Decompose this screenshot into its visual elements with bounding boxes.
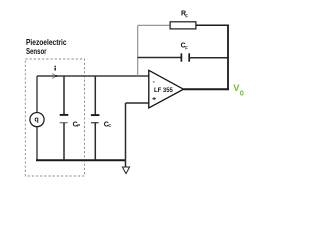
- capacitor CC top lead: [94, 76, 96, 115]
- resistor RF body: [170, 22, 196, 29]
- wire: output: [184, 88, 229, 90]
- capacitor CP top lead: [63, 76, 65, 115]
- wire: feedback left vertical: [137, 25, 139, 76]
- capacitor CP bottom lead: [63, 123, 65, 161]
- capacitor CF left wire: [138, 57, 182, 59]
- capacitor CP bottom plate: [60, 122, 68, 124]
- dashed sensor boundary box: [25, 59, 84, 176]
- wire: bottom rail: [36, 159, 126, 161]
- capacitor CF right wire: [189, 57, 229, 59]
- current arrow on top wire: [52, 74, 57, 79]
- ground (open arrowhead): [122, 167, 129, 174]
- svg-text:o: o: [240, 87, 245, 97]
- charge source q (circle): [30, 113, 44, 127]
- capacitor CC top plate: [91, 114, 100, 116]
- svg-text:LF 355: LF 355: [154, 87, 173, 94]
- wire: top node from sensor to inverting input: [37, 75, 149, 77]
- capacitor CF right plate: [188, 53, 190, 61]
- wire: ground branch vertical: [125, 103, 127, 167]
- capacitor CC bottom lead: [94, 123, 96, 161]
- capacitor CC bottom plate: [91, 122, 99, 124]
- wire: non-inverting input: [126, 102, 149, 104]
- svg-text:Piezoelectric: Piezoelectric: [26, 38, 67, 47]
- op-amp plus sign: [152, 98, 156, 99]
- svg-text:P: P: [77, 123, 80, 128]
- svg-text:q: q: [34, 115, 38, 124]
- svg-text:c: c: [108, 123, 111, 129]
- svg-text:F: F: [185, 46, 188, 52]
- label i: [55, 66, 56, 67]
- svg-text:Sensor: Sensor: [26, 47, 47, 56]
- resistor RF left wire: [138, 24, 170, 26]
- capacitor CP top plate: [60, 114, 69, 116]
- svg-text:F: F: [185, 13, 188, 19]
- wire: left vertical from top node to charge source: [36, 76, 38, 113]
- resistor RF right wire: [197, 24, 229, 26]
- op-amp U1 LF355 triangle: [149, 70, 184, 108]
- wire: right feedback vertical: [227, 25, 229, 91]
- op-amp minus sign: [153, 81, 155, 82]
- wire: below charge source to bottom rail: [36, 127, 38, 160]
- capacitor CF left plate: [180, 53, 182, 61]
